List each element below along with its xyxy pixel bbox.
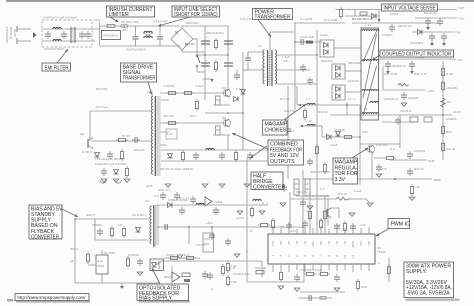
thermistor TR1 xyxy=(121,24,125,28)
ground t2 xyxy=(234,254,240,257)
svg-text:COUPLED OUTPUT INDUCTOR: COUPLED OUTPUT INDUCTOR xyxy=(382,52,452,58)
resistor R31 xyxy=(342,135,354,138)
resistor R52 xyxy=(86,252,89,264)
svg-text:C1: C1 xyxy=(303,241,307,245)
svg-text:SBL2040: SBL2040 xyxy=(348,61,361,65)
diode D20 xyxy=(168,203,173,208)
leader arrow xyxy=(284,104,306,120)
bias row wire bottom xyxy=(161,160,268,162)
resistor R13 xyxy=(216,96,221,105)
magamp choke L2 xyxy=(307,103,315,105)
svg-text:·2·: ·2· xyxy=(210,287,214,291)
wire base drive top xyxy=(90,110,152,112)
component value labels (small print) xyxy=(70,12,457,291)
diode D15 xyxy=(418,30,423,35)
svg-text:-12V: -12V xyxy=(458,17,464,21)
ground g7 xyxy=(244,184,250,187)
wire bulk mid xyxy=(205,54,228,56)
resistor R65 xyxy=(387,264,390,276)
svg-text:R7 10: R7 10 xyxy=(122,134,130,138)
resistor R32 xyxy=(384,156,396,159)
capacitor Cp xyxy=(306,295,314,301)
svg-text:L3 ·2: L3 ·2 xyxy=(348,97,355,101)
vertical secondary bus A xyxy=(294,22,296,110)
wire secondary bus drop xyxy=(289,192,291,227)
capacitor C5 680uF xyxy=(201,35,210,44)
leader arrow xyxy=(372,55,380,60)
ground s4 xyxy=(259,211,265,214)
capacitor C45 series xyxy=(165,224,167,230)
svg-text:A·7R·X: A·7R·X xyxy=(82,150,92,154)
wire -5V rail xyxy=(412,31,455,33)
svg-text:2200μF+2: 2200μF+2 xyxy=(384,97,398,101)
wire stub xyxy=(171,266,173,280)
svg-text:10μF: 10μF xyxy=(334,223,341,227)
leader arrow xyxy=(232,133,268,149)
wire N xyxy=(17,40,31,42)
svg-text:R5 470k: R5 470k xyxy=(96,87,108,91)
capacitor CX2 xyxy=(61,31,67,39)
wire sec bottom xyxy=(277,83,317,85)
wire standby bottom xyxy=(75,282,160,284)
coil L6 xyxy=(196,203,204,205)
ground a2 xyxy=(430,40,434,46)
svg-text:C 1μF: C 1μF xyxy=(236,87,244,91)
svg-text:2IN: 2IN xyxy=(367,241,371,246)
svg-text:0.01: 0.01 xyxy=(290,229,296,233)
svg-text:N·100 A·102: N·100 A·102 xyxy=(233,272,250,276)
leader arrow xyxy=(148,82,152,95)
ground s1 xyxy=(120,283,124,289)
svg-text:CT: CT xyxy=(335,241,339,245)
EMI filter dashed enclosure xyxy=(42,20,92,47)
ground q2 xyxy=(349,213,355,216)
resistor Rp xyxy=(320,297,326,300)
leader arrow xyxy=(110,17,118,22)
wire +5V rail xyxy=(379,58,457,60)
svg-text:1.2A: 1.2A xyxy=(306,119,312,123)
svg-text:1N4148: 1N4148 xyxy=(446,86,457,90)
svg-text:Q3: Q3 xyxy=(80,132,84,136)
transistor Q13 box xyxy=(203,233,214,252)
svg-text:C·N μ·R·: C·N μ·R· xyxy=(240,17,252,21)
svg-text:+: + xyxy=(206,35,208,39)
pins bottom xyxy=(273,264,369,272)
resistor R60 xyxy=(182,273,190,282)
svg-text:600V(8A): 600V(8A) xyxy=(186,21,199,25)
ground a3 xyxy=(442,40,446,46)
svg-text:TT1 2kΩ(1W) R8 100: TT1 2kΩ(1W) R8 100 xyxy=(95,157,124,161)
wire aux vertical xyxy=(388,258,390,282)
capacitor C32 xyxy=(407,151,413,159)
diode D8 xyxy=(234,97,239,102)
label box: 300W ATX POWER SUPPLY xyxy=(404,262,454,298)
svg-text:470μF·5: 470μF·5 xyxy=(400,109,412,113)
svg-text:1.1k: 1.1k xyxy=(414,185,420,189)
svg-text:5.6k: 5.6k xyxy=(284,109,290,113)
vertical x250 xyxy=(246,158,248,227)
wire to gnd xyxy=(350,199,369,202)
capacitor C28 xyxy=(398,84,409,87)
svg-text:E2: E2 xyxy=(287,241,291,245)
resistor R13b xyxy=(195,99,198,111)
ground f2 xyxy=(280,203,286,206)
capacitor C31 xyxy=(376,164,382,172)
svg-text:1.5μF: 1.5μF xyxy=(196,84,204,88)
svg-text:47μF 0.1: 47μF 0.1 xyxy=(158,188,170,192)
svg-text:R6 220: R6 220 xyxy=(164,114,174,118)
bottom frame bar xyxy=(16,301,90,303)
svg-text:L·: L· xyxy=(378,261,381,265)
TL431 U5 xyxy=(205,197,223,206)
vertical bus x325 xyxy=(324,196,326,234)
wires T2 secondary to Q1 base xyxy=(160,92,223,94)
diode D21 xyxy=(136,228,141,233)
diode D7 xyxy=(168,154,173,159)
capacitor C36 xyxy=(190,196,196,204)
capacitor C11 xyxy=(132,137,140,143)
resistor R63 xyxy=(256,271,264,274)
svg-text:TCO: TCO xyxy=(94,18,101,22)
svg-text:UVP: UVP xyxy=(458,6,464,10)
svg-text:Q1: Q1 xyxy=(222,86,226,90)
ground a6 xyxy=(401,103,407,106)
resistor R26 zig xyxy=(441,98,445,107)
wire EMI top xyxy=(42,28,99,30)
svg-text:C9 47μF: C9 47μF xyxy=(96,105,108,109)
svg-text:R36 10k: R36 10k xyxy=(255,266,267,270)
label box: BASE DRIVE SIGNAL TRANSFORMER xyxy=(121,63,157,95)
svg-text:PC817: PC817 xyxy=(166,253,176,257)
svg-text:∆ ··1: ∆ ··1 xyxy=(262,201,269,205)
svg-text:1N4148·2: 1N4148·2 xyxy=(410,41,424,45)
svg-text:SUPPLY:: SUPPLY: xyxy=(406,269,427,275)
capacitor C27 xyxy=(409,61,415,69)
svg-text:PU 2: PU 2 xyxy=(190,114,197,118)
svg-text:2A: 2A xyxy=(284,59,288,63)
svg-text:680μF(200V): 680μF(200V) xyxy=(206,31,224,35)
svg-text:2N60: 2N60 xyxy=(97,264,105,268)
resistor R2 bleeder xyxy=(214,60,217,72)
wire L xyxy=(17,28,31,30)
resistor R29 on bus xyxy=(441,124,444,136)
bridge rectifier BR1 xyxy=(171,28,195,50)
svg-text:R31 2k: R31 2k xyxy=(318,110,328,114)
resistor R56 xyxy=(250,206,253,218)
svg-text:+12V: +12V xyxy=(427,89,434,93)
svg-text:4A/2A: 4A/2A xyxy=(13,29,17,37)
label box: BIAS AND 5V STANDBY xyxy=(29,205,78,240)
wire choke 5V xyxy=(298,104,347,106)
vertical bus x310 xyxy=(309,192,311,234)
diode D17 xyxy=(336,132,341,137)
svg-text:3300μF×2: 3300μF×2 xyxy=(392,64,406,68)
vertical x303 xyxy=(302,170,304,234)
wire standby top xyxy=(75,218,149,220)
svg-text:GND: GND xyxy=(351,241,355,249)
fuse F1 xyxy=(107,25,115,28)
ground g1 xyxy=(101,179,107,182)
wire -12V feed xyxy=(352,22,440,24)
svg-text:TRANSFORMER: TRANSFORMER xyxy=(123,76,156,82)
svg-text:TRANSFORMER: TRANSFORMER xyxy=(255,14,291,20)
svg-text:-5V: -5V xyxy=(456,31,461,35)
resistor R15 xyxy=(181,150,184,162)
svg-text:1N4148: 1N4148 xyxy=(334,128,345,132)
varistor VAR(250V) box xyxy=(102,31,121,40)
small box snubber xyxy=(166,129,177,139)
resistor R14 xyxy=(216,126,221,135)
capacitor CY1 xyxy=(79,31,85,39)
svg-text:Q10 2S?: Q10 2S? xyxy=(376,143,388,147)
svg-text:1·4: 1·4 xyxy=(320,187,325,191)
top rail from T1 xyxy=(295,22,345,24)
resistor Rh xyxy=(304,272,316,275)
capacitor C2 xyxy=(157,26,163,46)
resistor R30 on bus xyxy=(441,141,444,153)
label box: MAGAMP CHOKES xyxy=(263,104,307,135)
svg-text:C·2: C·2 xyxy=(154,194,159,198)
ground p1 xyxy=(278,286,284,289)
ground p2 xyxy=(294,288,300,291)
long wire feedback to pwm xyxy=(157,226,303,228)
resistor R54 xyxy=(184,256,196,259)
wire q1 emitter row xyxy=(213,104,230,106)
svg-text:INPUT VOLTAGE SENSE: INPUT VOLTAGE SENSE xyxy=(384,6,436,12)
wire gnd row xyxy=(390,159,427,161)
svg-text:2.7: 2.7 xyxy=(306,97,311,101)
wire 5VSB rail xyxy=(335,9,457,11)
svg-text:GBU8A: GBU8A xyxy=(185,42,195,46)
transformer T3 flyback xyxy=(145,199,159,247)
wire standby left xyxy=(74,219,76,283)
svg-text:0.0047μF(2kV): 0.0047μF(2kV) xyxy=(126,48,146,52)
svg-text:100: 100 xyxy=(446,100,451,104)
wire Q2 return xyxy=(227,135,229,150)
wire from rect pack to choke row xyxy=(345,104,361,106)
leader arrow xyxy=(57,49,68,63)
capacitor C44 xyxy=(137,258,143,266)
svg-text:100μF: 100μF xyxy=(390,12,399,16)
capacitor C15 xyxy=(193,152,199,160)
svg-text:+5V: +5V xyxy=(457,58,462,62)
capacitor C17 xyxy=(247,152,253,160)
diode D9 on bus xyxy=(241,90,246,95)
opto U4 xyxy=(150,259,164,271)
label box: INPUT LINE SELECT xyxy=(158,6,220,26)
svg-text:VREF: VREF xyxy=(433,178,441,182)
svg-text:OAL N 2?: OAL N 2? xyxy=(414,72,427,76)
svg-text:1N4148 C 1μF 2SC945: 1N4148 C 1μF 2SC945 xyxy=(95,162,127,166)
capacitor C30 xyxy=(395,117,401,125)
svg-text:R17 1k: R17 1k xyxy=(226,266,236,270)
svg-text:5.6k: 5.6k xyxy=(231,280,237,284)
svg-text:Q12: Q12 xyxy=(97,259,103,263)
wire -12V rail xyxy=(415,17,457,19)
svg-text:115/230VAC: 115/230VAC xyxy=(5,27,9,44)
svg-text:VAR(250V): VAR(250V) xyxy=(103,34,118,38)
svg-text:+2.4V: +2.4V xyxy=(236,216,244,220)
svg-text:1N4148: 1N4148 xyxy=(128,253,139,257)
wire junction dots xyxy=(74,41,444,228)
resistor R16 xyxy=(234,150,237,162)
capacitor Cq xyxy=(350,223,356,231)
resistor R10 xyxy=(166,91,178,94)
resistor Rd xyxy=(319,218,322,230)
resistor R1 bleeder xyxy=(214,38,217,50)
resistor Rm2 box xyxy=(305,179,310,196)
capacitor Cg xyxy=(294,274,300,282)
svg-text:1N5822 470μF: 1N5822 470μF xyxy=(168,198,188,202)
capacitor C20 snubber xyxy=(298,39,306,45)
vertical dummy-load bus xyxy=(442,61,444,160)
resistor R9b xyxy=(120,149,123,161)
resistor Ro xyxy=(323,162,326,174)
leader arrow xyxy=(250,146,267,158)
wire across y196 xyxy=(296,195,330,197)
resistor R11 xyxy=(182,91,194,94)
label box: COMBINED FEEDBACK xyxy=(232,133,304,165)
capacitor C35 xyxy=(209,232,215,240)
svg-text:PU SCK 2R5: PU SCK 2R5 xyxy=(121,20,139,24)
wire rail bottom xyxy=(100,45,181,47)
wire bias row2 xyxy=(94,219,96,240)
svg-text:DT: DT xyxy=(327,241,331,245)
label box: INPUT VOLTAGE SENSE xyxy=(382,4,438,12)
capacitor Ck xyxy=(300,199,306,207)
svg-text:2200μF: 2200μF xyxy=(408,96,418,100)
wire sec mid xyxy=(277,69,310,71)
capacitor CY2 xyxy=(85,31,91,39)
wire T2 taps xyxy=(161,100,169,145)
rectifier pack D12 xyxy=(332,85,345,100)
svg-text:1μF: 1μF xyxy=(382,167,387,171)
jumper arc 2 xyxy=(115,180,121,183)
diode D6 xyxy=(95,153,100,158)
snubber wire xyxy=(295,41,322,43)
bulk rail right xyxy=(227,26,229,88)
coil L4 xyxy=(206,148,214,150)
leader arrow xyxy=(352,148,368,158)
resistor Rm box xyxy=(294,179,299,195)
svg-text:C·1 μF/R: C·1 μF/R xyxy=(300,17,313,21)
svg-text:PWM IC: PWM IC xyxy=(391,222,410,228)
capacitor C23 xyxy=(437,18,443,26)
svg-text:··: ·· xyxy=(284,203,286,207)
svg-text:TL431: TL431 xyxy=(214,200,223,204)
svg-text:R··: R·· xyxy=(250,229,254,233)
svg-text:10k 4.7k: 10k 4.7k xyxy=(296,190,308,194)
svg-text:E1: E1 xyxy=(295,241,299,245)
svg-text:EMI FILTER: EMI FILTER xyxy=(45,65,69,71)
svg-text:50/60 Hz: 50/60 Hz xyxy=(9,27,13,40)
svg-text:10μF/16: 10μF/16 xyxy=(414,149,425,153)
resistor Rq xyxy=(343,221,346,233)
capacitor C25 xyxy=(441,33,447,41)
wire dt row xyxy=(290,198,336,200)
transistor Q2 xyxy=(223,119,231,127)
opto wire row y261 xyxy=(156,261,262,265)
resistor R25 xyxy=(441,80,444,92)
transistor Q10 xyxy=(367,145,375,153)
label box: COUPLED OUTPUT INDUCTOR xyxy=(372,50,454,60)
capacitor C41 xyxy=(213,207,219,215)
resistor R24 xyxy=(441,66,444,78)
svg-text:SD2 4h: SD2 4h xyxy=(134,148,144,152)
wire T1 bottom to bus xyxy=(243,69,263,71)
svg-text:D83-004: D83-004 xyxy=(321,59,333,63)
resistor R28 xyxy=(424,117,432,122)
svg-text:T3: T3 xyxy=(145,199,149,203)
svg-text:4.7k 10k 0.01μF: 4.7k 10k 0.01μF xyxy=(300,268,322,272)
resistor Rl xyxy=(323,209,326,221)
node sense tap xyxy=(354,10,356,17)
wire drop x189 xyxy=(188,227,190,244)
svg-text:R49: R49 xyxy=(361,285,367,289)
wire q2 emitter row xyxy=(213,134,230,136)
resistor R53 xyxy=(168,256,180,259)
svg-text:CONVERTER: CONVERTER xyxy=(253,184,285,190)
vertical x400 xyxy=(399,115,401,148)
TL431 U6 xyxy=(172,272,180,282)
resistor R55 xyxy=(126,256,129,268)
wire fb xyxy=(310,171,330,173)
svg-text:LIMITER: LIMITER xyxy=(109,12,130,18)
mosfet Q12 xyxy=(96,255,108,274)
capacitor C12 xyxy=(101,168,107,176)
resistor R33 xyxy=(410,184,413,196)
wire 5VSB from T3 xyxy=(157,204,268,206)
wire +3.3V rail xyxy=(330,114,452,116)
wire bridge ac mid xyxy=(193,39,197,55)
leader arrow xyxy=(62,209,78,217)
svg-text:4·8: 4·8 xyxy=(280,225,285,229)
resistor R61 xyxy=(226,261,229,273)
inductor L1b xyxy=(53,39,61,41)
wire gnd return loop xyxy=(247,227,304,282)
capacitor Cm xyxy=(281,184,287,192)
wire bridge+ xyxy=(182,26,205,28)
svg-text:PR 2% 47 10μF 1N5819: PR 2% 47 10μF 1N5819 xyxy=(160,167,193,171)
resistor Rn xyxy=(315,144,318,156)
transistor Q11 xyxy=(327,208,331,218)
svg-text:3.3V: 3.3V xyxy=(335,177,346,183)
ground q1 xyxy=(367,203,373,206)
leader arrowheads xyxy=(65,19,380,271)
ground g2 xyxy=(113,179,119,182)
svg-text:·: · xyxy=(300,243,301,247)
svg-text:FB: FB xyxy=(295,182,299,186)
label box: EMI FILTER xyxy=(42,49,71,71)
svg-text:0·17 7·····: 0·17 7····· xyxy=(196,243,210,247)
wire xyxy=(298,297,332,299)
ground a1 xyxy=(426,24,430,30)
wires packs to inductor xyxy=(334,47,361,49)
svg-text:R 2Ω: R 2Ω xyxy=(446,72,454,76)
diode D16 xyxy=(327,135,332,140)
label box: MAGAMP REGULATOR xyxy=(333,148,368,184)
bias row wire top xyxy=(161,149,268,151)
capacitor C22 xyxy=(425,18,431,26)
svg-text:http://www.smpspowersupply.com: http://www.smpspowersupply.com/ xyxy=(18,295,87,300)
leader arrow xyxy=(376,229,389,237)
svg-text:R34 7k: R34 7k xyxy=(414,167,424,171)
wire EMI bottom xyxy=(42,40,95,42)
capacitor C7 xyxy=(224,41,233,44)
svg-text:T1: T1 xyxy=(258,44,262,48)
resistor R51 xyxy=(122,226,125,238)
resistor R36 xyxy=(258,223,270,226)
